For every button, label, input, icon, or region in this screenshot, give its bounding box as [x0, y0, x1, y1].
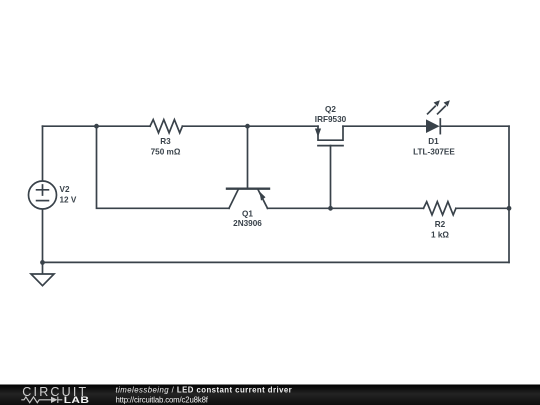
- svg-text:timelessbeing / LED constant c: timelessbeing / LED constant current dri…: [116, 386, 293, 395]
- svg-text:Q1: Q1: [242, 210, 253, 219]
- svg-text:Q2: Q2: [325, 105, 336, 114]
- svg-text:2N3906: 2N3906: [233, 219, 262, 228]
- svg-text:IRF9530: IRF9530: [315, 115, 347, 124]
- svg-text:V2: V2: [60, 185, 70, 194]
- svg-text:LAB: LAB: [64, 395, 90, 405]
- svg-text:750 mΩ: 750 mΩ: [151, 147, 181, 156]
- svg-text:LTL-307EE: LTL-307EE: [413, 147, 455, 156]
- svg-text:12 V: 12 V: [60, 195, 77, 204]
- svg-text:1 kΩ: 1 kΩ: [431, 230, 449, 239]
- svg-text:R3: R3: [160, 137, 171, 146]
- svg-text:http://circuitlab.com/c2u8k8f: http://circuitlab.com/c2u8k8f: [116, 396, 209, 405]
- svg-text:D1: D1: [428, 137, 439, 146]
- svg-text:R2: R2: [435, 220, 446, 229]
